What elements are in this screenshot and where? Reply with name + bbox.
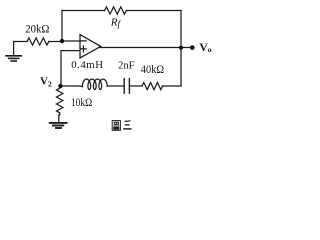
plus sign inside op-amp [81,46,87,52]
svg-text:0.4mH: 0.4mH [71,59,103,71]
capacitor 2nF plates [123,79,125,94]
ground (left input ground) [6,42,21,62]
feedback vertical wire [61,11,63,42]
wire node A to op-amp minus input [62,40,80,42]
resistor 40k zigzag [142,83,163,90]
ground (below 10k) [50,123,67,128]
op-amp plus input wire [61,51,80,86]
wire capacitor to R40k [129,85,142,87]
svg-text:20kΩ: 20kΩ [25,23,49,35]
op-amp output wire to Vo terminal [100,47,192,49]
wire R20k to node A [49,41,62,43]
node A junction dot [60,39,64,43]
resistor 10k vertical zigzag [57,88,63,115]
caption 圖三 (figure three) drawn strokes [112,121,131,131]
node V2 junction dot [58,84,62,88]
wire R10k to ground stem [58,115,60,123]
svg-text:40kΩ: 40kΩ [141,64,164,76]
inductor 0.4mH coil [80,79,107,89]
svg-text:10kΩ: 10kΩ [71,97,92,109]
svg-text:Rf: Rf [110,16,122,29]
top feedback wire left [62,10,105,12]
wire inductor to capacitor [107,85,124,87]
resistor Rf zigzag [105,7,127,14]
minus sign inside op-amp [81,40,86,42]
圖 glyph box [112,121,120,131]
svg-text:2nF: 2nF [118,59,135,71]
三 glyph strokes [125,120,131,123]
bottom wire V2 node to inductor [61,85,81,87]
Vo terminal dot [190,45,195,50]
wire ground to R 20k [14,41,27,43]
wire R40k to right corner [163,85,181,87]
op-amp U1 triangle [80,35,101,58]
output junction dot [179,46,183,50]
resistor 20k zigzag [27,38,49,45]
right vertical wire [180,11,182,87]
top feedback wire right [126,10,181,12]
